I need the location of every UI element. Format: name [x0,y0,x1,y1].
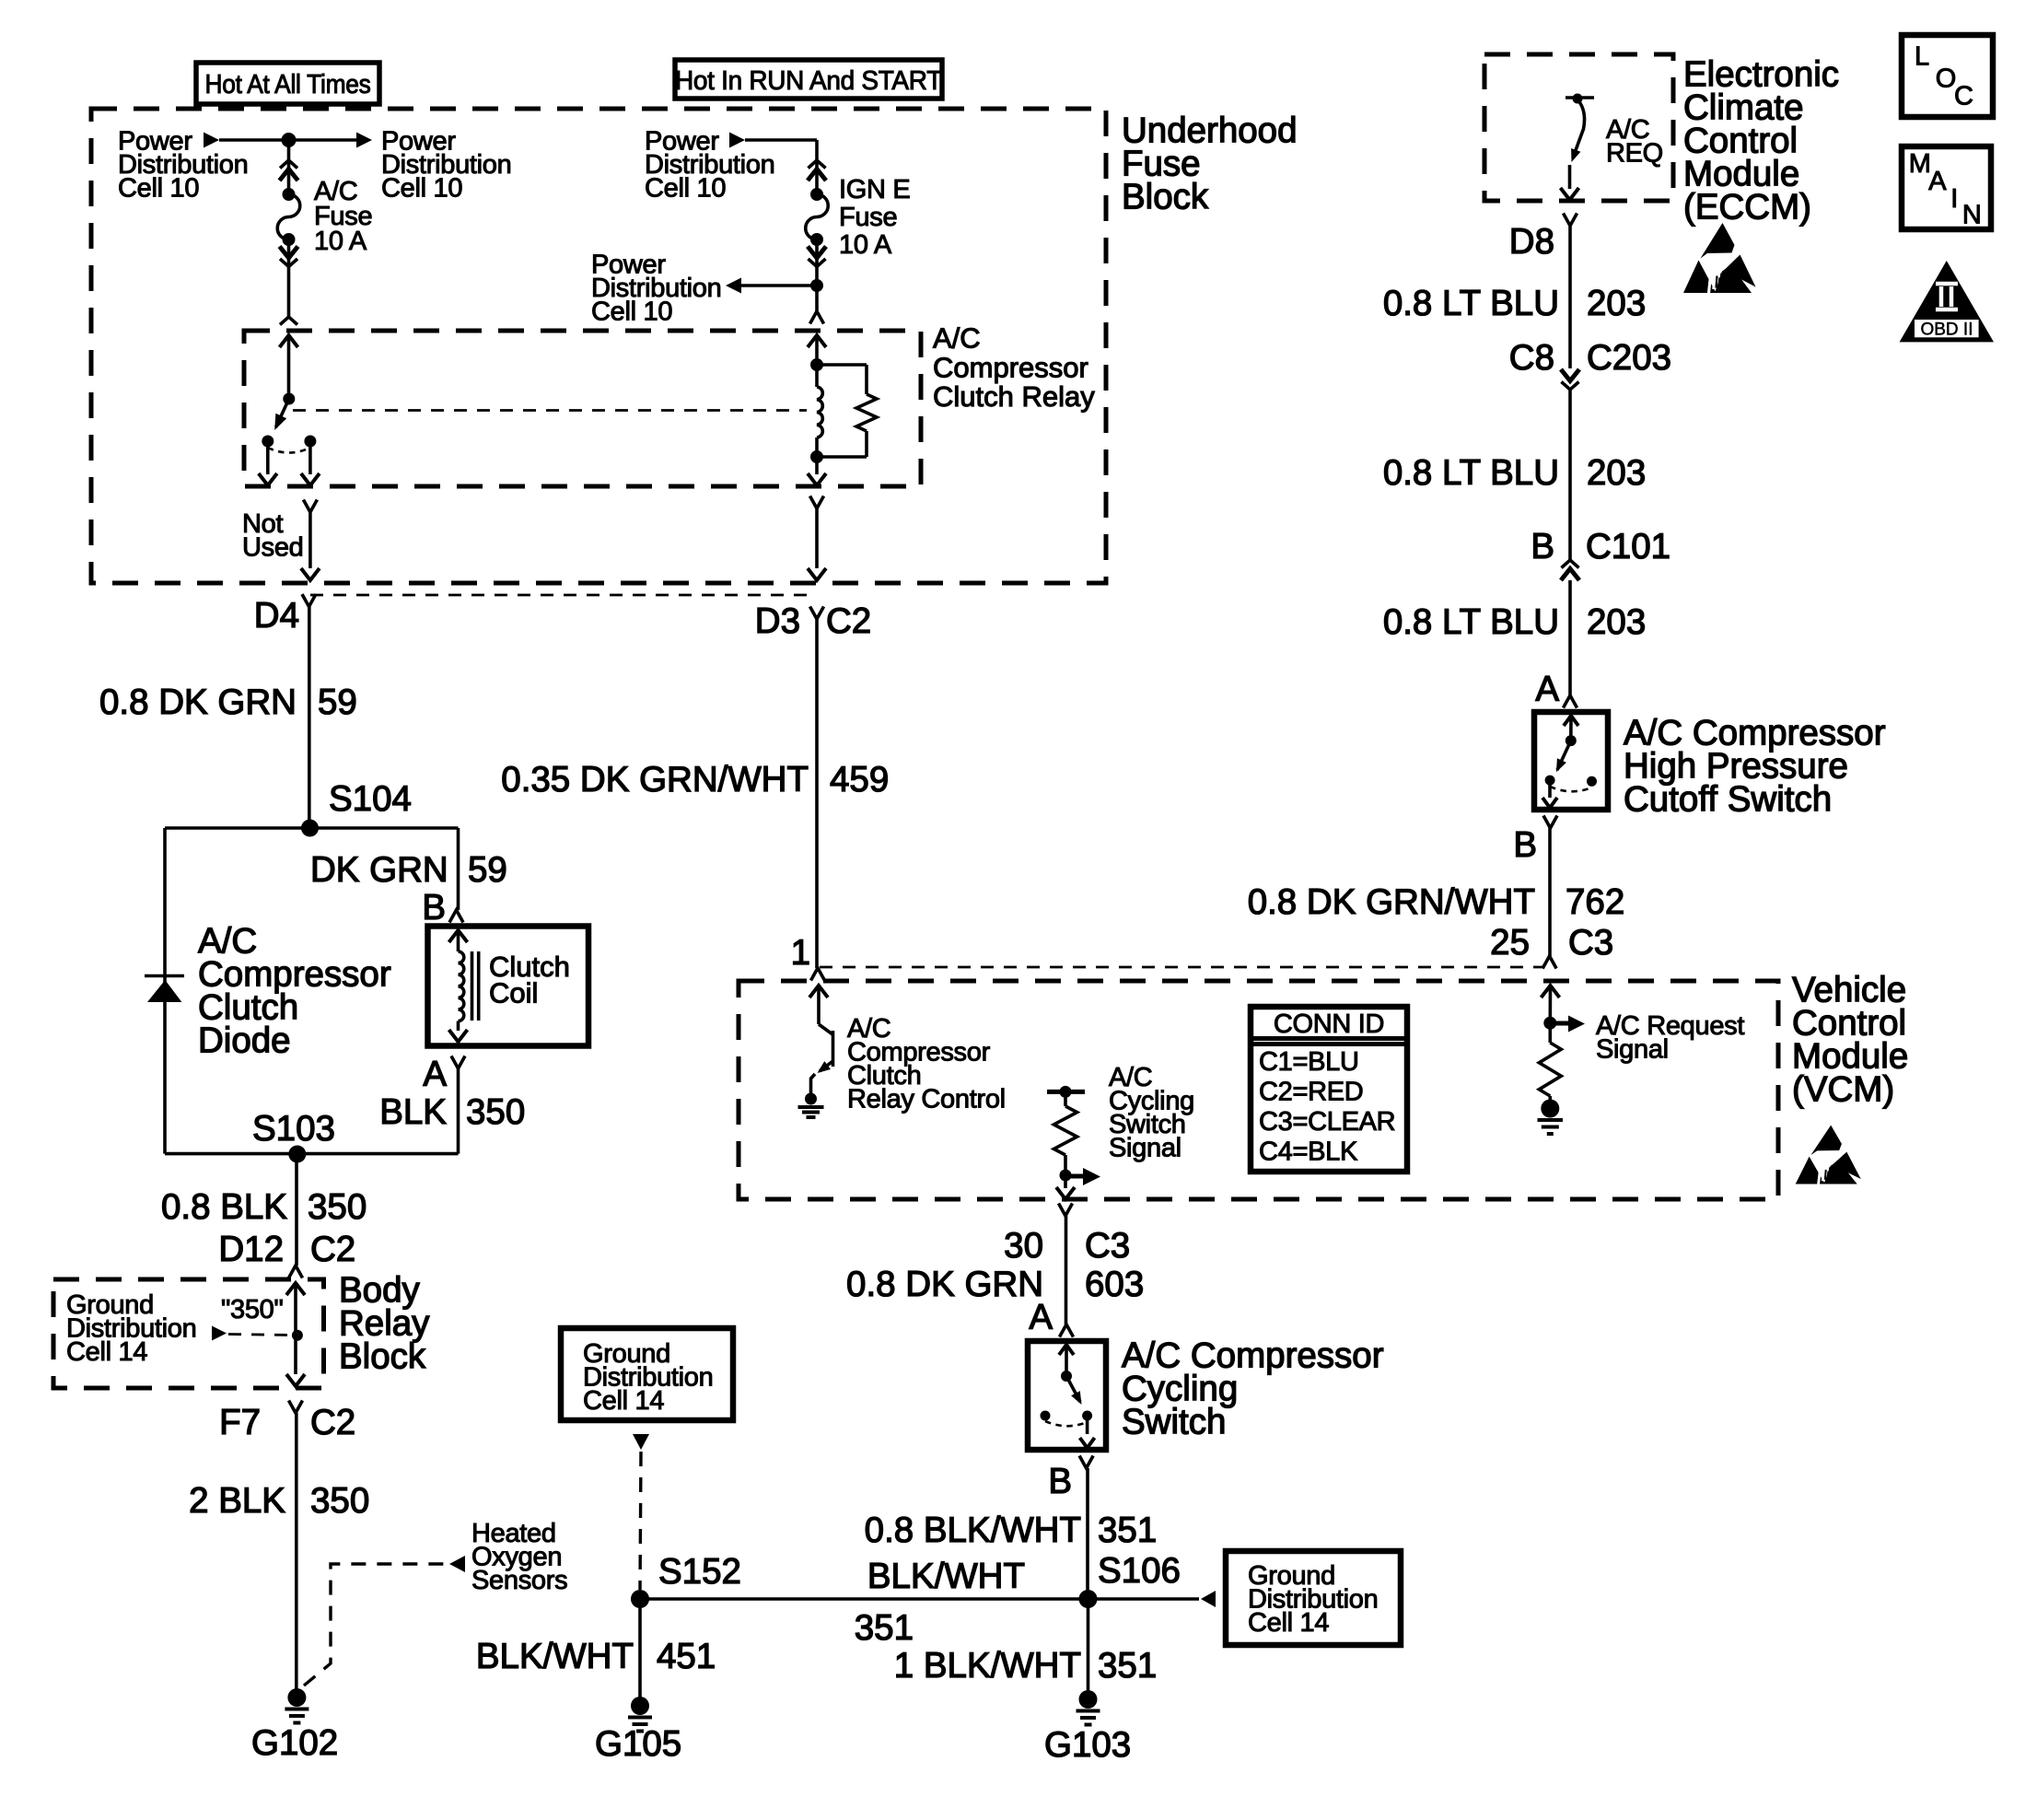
A/C REQ output wire [1561,165,1579,200]
label 0.8 DK GRN/WHT 762 [1248,882,1625,922]
svg-text:A: A [1029,1298,1053,1337]
wire F7 to G102 [295,1413,298,1697]
VCM cycling signal dot top [1060,1086,1072,1098]
label F7 C2 [219,1403,355,1442]
svg-text:Hot At All Times: Hot At All Times [205,70,371,99]
svg-text:D4: D4 [254,596,299,636]
label 0.8 DK GRN 59 [99,682,357,722]
node: power distribution reference left [118,127,248,204]
connector Y pin1 VCM [811,968,825,981]
svg-text:O: O [1936,64,1956,94]
svg-text:A: A [1928,167,1947,196]
svg-text:0.8 LT BLU: 0.8 LT BLU [1383,602,1559,642]
svg-text:30: 30 [1004,1226,1043,1266]
VCM request junction dot [1543,1017,1556,1030]
svg-text:Cell 14: Cell 14 [66,1337,147,1367]
label ref 350 [221,1295,283,1324]
wire relay to fuse block edge left [301,512,320,580]
svg-text:Cell 10: Cell 10 [118,174,199,204]
svg-text:F7: F7 [219,1403,261,1442]
label 0.8 BLK/WHT 351 [865,1511,1158,1550]
connector Y D12 [289,1266,303,1278]
relay resistor zigzag [856,394,877,431]
HP switch blade [1556,741,1571,772]
label 25 C3 [1490,923,1613,962]
clutch coil entry arrow [449,930,468,951]
connector Y clutch coil B [449,910,463,923]
underhood fuse block label [1122,111,1298,216]
label pin A clutch coil [423,1055,447,1094]
relay NO wire [301,441,320,485]
ESD symbol ECCM [1683,223,1756,293]
wire clutch coil to S103 [457,1068,460,1154]
svg-text:C2=RED: C2=RED [1259,1078,1363,1107]
wire power dist tap [740,284,817,287]
relay coil [817,365,822,457]
connector Y F7 [289,1401,303,1414]
label DK GRN 59 [310,850,507,890]
svg-text:C3: C3 [1568,923,1613,962]
arrow ground distribution left [212,1326,227,1341]
connector Y HP switch B [1543,816,1557,829]
connector Y 25 C3 [1542,956,1556,969]
ground distribution cell14 box right [1226,1551,1401,1645]
junction S104 [301,820,319,837]
svg-text:Clutch Relay: Clutch Relay [933,380,1095,413]
cycling switch contact dot left [1041,1411,1051,1421]
svg-text:G105: G105 [595,1724,681,1764]
CONN ID table box [1251,1007,1407,1172]
connector chevrons down C203 [1561,369,1579,390]
label A/C Compressor Cycling Switch [1122,1336,1384,1441]
svg-text:Block: Block [339,1336,426,1376]
arrow ground distribution right [1201,1591,1216,1607]
svg-text:S106: S106 [1098,1551,1181,1591]
label A/C Compressor Clutch Diode [198,921,391,1060]
svg-text:10 A: 10 A [839,230,892,260]
label 0.8 DK GRN 603 [846,1265,1144,1304]
svg-text:Signal: Signal [1596,1035,1669,1065]
svg-text:Used: Used [242,533,304,563]
arrow power distribution left [204,133,219,148]
svg-text:Sensors: Sensors [471,1566,567,1595]
svg-text:S104: S104 [329,779,412,819]
svg-text:59: 59 [468,850,507,890]
label D12 C2 [218,1230,355,1269]
label pin 1 [791,933,810,973]
wire 603 [1065,1216,1068,1324]
wire below IGN E fuse [815,239,819,311]
VCM cycling signal resistor [1053,1091,1077,1175]
dashed wire heated oxygen sensors [304,1564,448,1686]
dashed wire to S152 [640,1452,641,1590]
svg-text:C1=BLU: C1=BLU [1259,1047,1359,1077]
relay coil entry arrow [808,335,826,365]
connector chevrons up at A/C fuse [280,160,298,181]
label S103 [252,1109,335,1149]
wire S103 to D12 [295,1154,298,1266]
arrow ground distribution mid [633,1434,649,1450]
wire S103 horizontal [165,1152,459,1156]
label G102 [251,1723,338,1763]
label 0.8 BLK 350 [161,1187,367,1227]
wire cycling switch to S106 [1086,1468,1089,1599]
svg-text:1 BLK/WHT: 1 BLK/WHT [894,1646,1081,1686]
label G105 [595,1724,681,1764]
cycling switch pivot dot [1061,1371,1072,1382]
svg-text:Coil: Coil [489,977,538,1009]
svg-text:762: 762 [1566,882,1624,922]
OBD II triangle [1900,261,1994,342]
wire HP switch to VCM [1548,828,1552,956]
ground G102 [285,1688,308,1723]
wire S104 horizontal [165,826,459,830]
svg-text:B: B [1513,825,1537,865]
svg-text:0.8 BLK/WHT: 0.8 BLK/WHT [865,1511,1081,1550]
connector chevrons up at IGN E fuse [808,160,826,181]
label S104 [329,779,412,819]
svg-text:25: 25 [1490,923,1530,962]
junction S106 [1079,1590,1098,1608]
svg-text:N: N [1962,201,1982,230]
cycling switch contact dot right [1082,1411,1092,1421]
wire C101 to HP switch [1568,580,1572,695]
svg-text:351: 351 [1098,1511,1157,1550]
VCM request ground [1538,1100,1564,1135]
relay pivot dot [283,393,295,405]
svg-text:Block: Block [1122,177,1209,216]
label Ground Distribution Cell 14 left [66,1290,196,1367]
label A/C Cycling Switch Signal [1109,1063,1194,1163]
wire 59 to S104 [308,606,311,828]
ground G103 [1077,1690,1100,1725]
HP switch contact arc [1550,787,1591,791]
label D3 C2 [755,601,871,641]
svg-text:S103: S103 [252,1109,335,1149]
svg-text:C3=CLEAR: C3=CLEAR [1259,1107,1395,1137]
wire power feed horizontal [219,138,357,142]
label C8 C203 [1509,338,1671,378]
svg-text:0.8 BLK: 0.8 BLK [161,1187,287,1227]
relay switch arm entry arrow [280,335,298,399]
ESD symbol VCM [1796,1126,1861,1184]
svg-text:A: A [1535,670,1559,709]
wire S106 to ground dist [1088,1597,1200,1601]
connector chevron at relay box top left [280,317,297,325]
svg-text:D8: D8 [1509,222,1554,262]
diode D1 cathode bar [145,974,184,978]
svg-text:Cutoff Switch: Cutoff Switch [1624,779,1832,819]
body relay block box [53,1279,324,1388]
svg-text:C8: C8 [1509,338,1554,378]
svg-text:0.8 DK GRN: 0.8 DK GRN [99,682,297,722]
connector Y HP switch A [1564,695,1577,708]
LOC box [1902,35,1993,117]
HP switch pivot dot [1566,735,1577,746]
label S106 [1098,1551,1181,1591]
label 0.8 LT BLU 203 lower [1383,602,1646,642]
svg-text:C2: C2 [310,1403,355,1442]
relay contact dot NO [304,436,316,448]
svg-text:BLK: BLK [379,1092,447,1132]
HP switch contact dot left [1545,776,1555,786]
MAIN box [1902,146,1991,230]
svg-text:0.8 DK GRN/WHT: 0.8 DK GRN/WHT [1248,882,1535,922]
svg-text:I: I [1950,184,1958,214]
svg-text:BLK/WHT: BLK/WHT [867,1557,1025,1596]
label pin B clutch coil [422,888,446,927]
relay NC wire not used [259,441,277,485]
connector Y D8 [1564,214,1577,227]
svg-text:B: B [422,888,446,927]
connector Y cycling switch B [1079,1456,1093,1469]
svg-text:59: 59 [318,682,357,722]
svg-text:351: 351 [1098,1646,1157,1686]
label A/C Request Signal [1596,1011,1744,1065]
svg-text:Cell 10: Cell 10 [645,174,726,204]
svg-text:G103: G103 [1044,1725,1131,1765]
wire D8 to C203 [1568,226,1572,368]
A/C REQ switch bar [1566,96,1594,99]
cycling switch box [1028,1341,1106,1450]
svg-text:(VCM): (VCM) [1792,1069,1894,1109]
ground distribution cell14 box mid [561,1328,733,1420]
svg-text:203: 203 [1587,453,1646,493]
svg-text:CONN ID: CONN ID [1274,1009,1384,1039]
svg-text:Compressor: Compressor [933,351,1088,383]
svg-text:D12: D12 [218,1230,284,1269]
label G103 [1044,1725,1131,1765]
label 351 under link [855,1608,914,1648]
svg-text:Cell 10: Cell 10 [381,174,462,204]
connector chevrons up C101 [1561,560,1579,580]
label D8 [1509,222,1554,262]
VCM request resistor [1539,1023,1561,1100]
wire S152 to G105 [638,1599,642,1706]
wire 459 to VCM [815,619,819,968]
svg-text:451: 451 [657,1637,716,1676]
svg-text:C2: C2 [310,1230,355,1269]
node: power distribution reference right [381,127,511,204]
label C1=BLU [1259,1047,1359,1077]
fuse F1 A/C Fuse 10A [277,188,300,246]
label 30 C3 [1004,1226,1130,1266]
label S152 [658,1552,741,1592]
svg-text:C203: C203 [1587,338,1671,378]
clutch coil box [428,927,589,1046]
label A/C Compressor Clutch Relay [933,322,1095,414]
label 0.8 LT BLU 203 upper [1383,284,1646,323]
node: power distribution reference tap [591,251,721,327]
label A/C Fuse 10 A [314,177,372,256]
svg-text:IGN E: IGN E [839,175,910,204]
label 0.8 LT BLU 203 middle [1383,453,1646,493]
junction dot A/C fuse top [282,133,297,147]
svg-text:0.8 DK GRN: 0.8 DK GRN [846,1265,1043,1304]
VCM cycling signal exit [1056,1175,1075,1199]
VCM relay control ground [798,1093,824,1118]
cycling switch blade [1066,1376,1082,1405]
junction dot 350 splice [292,1330,303,1341]
junction S103 [288,1146,306,1163]
svg-text:B: B [1531,527,1554,566]
label 2 BLK 350 [189,1481,369,1521]
wire A/C fuse drop [287,140,291,194]
wire below A/C fuse [287,239,291,316]
svg-text:Diode: Diode [198,1021,291,1060]
label D4 [254,596,299,636]
svg-text:203: 203 [1587,602,1646,642]
svg-text:B: B [1048,1462,1072,1501]
label Vehicle Control Module VCM [1792,970,1908,1109]
label pin A cycling switch [1029,1298,1053,1337]
VCM box [739,981,1778,1199]
label B C101 [1531,527,1670,566]
label BLK/WHT mid [867,1557,1025,1596]
connector C2 line at D4-D3 [310,594,817,597]
svg-text:L: L [1915,42,1929,72]
label pin B cycling switch [1048,1462,1072,1501]
svg-text:Fuse: Fuse [839,203,897,232]
VCM cycling signal dot bottom [1060,1170,1072,1182]
label Heated Oxygen Sensors [471,1519,567,1595]
svg-text:0.35 DK GRN/WHT: 0.35 DK GRN/WHT [501,760,809,799]
wire S106 to G103 [1087,1599,1090,1699]
svg-text:10 A: 10 A [314,227,367,256]
svg-text:A/C: A/C [933,322,981,355]
label box Hot In RUN And START [675,60,943,99]
A/C REQ pivot dot [1573,94,1583,104]
wire diode branch down [163,828,167,1154]
svg-text:Cell 14: Cell 14 [1248,1608,1329,1638]
body relay block exit arrow [286,1374,305,1386]
label A/C Compressor Clutch Relay Control [847,1014,1006,1114]
wire relay to fuse block edge right [808,508,826,580]
label Not Used [242,509,304,563]
diode D1 triangle [147,980,181,1002]
svg-text:Signal: Signal [1109,1134,1181,1163]
relay coil bottom dot [810,450,823,463]
connector Y below relay right [810,496,824,509]
svg-text:351: 351 [855,1608,914,1648]
VCM cycling signal bar [1047,1090,1085,1094]
relay actuator dashed link [293,409,807,412]
svg-text:C: C [1954,82,1973,111]
label Body Relay Block [339,1270,430,1376]
connector Y D3 [810,607,824,620]
relay blade [274,399,289,430]
arrow power distribution mid [729,133,745,148]
label 0.35 DK GRN/WHT 459 [501,760,889,799]
VCM cycling signal arrow [1065,1168,1100,1185]
HP switch output wire [1542,780,1557,808]
svg-text:S152: S152 [658,1552,741,1592]
ground G105 [628,1697,652,1732]
VCM relay control entry arrow [809,986,828,1024]
HP cutoff switch box [1534,712,1608,810]
relay parallel resistor [817,365,867,457]
svg-text:G102: G102 [251,1723,338,1763]
wire IGN E feed [745,140,817,194]
arrow heated oxygen sensors [449,1556,465,1572]
label Electronic Climate Control Module ECCM [1683,54,1839,227]
label pin A HP switch [1535,670,1559,709]
svg-text:C2: C2 [826,601,871,641]
label C2=RED [1259,1078,1363,1107]
svg-text:350: 350 [310,1481,369,1521]
svg-text:0.8 LT BLU: 0.8 LT BLU [1383,284,1559,323]
connector Y into relay box right [810,311,824,324]
svg-text:D3: D3 [755,601,800,641]
svg-text:350: 350 [466,1092,525,1132]
label A/C REQ [1606,115,1663,169]
HP switch entry arrow [1564,716,1578,741]
svg-text:M: M [1909,149,1931,179]
body relay block entry arrow [286,1283,305,1374]
connector Y D4 [302,594,316,607]
fuse F2 IGN E Fuse 10A [806,188,829,246]
relay contact dot NC [262,436,274,448]
svg-text:603: 603 [1085,1265,1144,1304]
svg-text:BLK/WHT: BLK/WHT [476,1637,634,1676]
clutch coil exit arrow [449,1021,468,1042]
VCM request entry arrow [1542,986,1560,1023]
junction dot power dist tap [810,279,823,292]
junction S152 [631,1590,649,1608]
HP switch contact dot right [1587,776,1597,787]
connector C3 line at pin25 [820,966,1542,969]
svg-text:0.8 LT BLU: 0.8 LT BLU [1383,453,1559,493]
svg-text:Cell 10: Cell 10 [591,297,672,327]
label C4=BLK [1259,1137,1358,1167]
label C3=CLEAR [1259,1107,1395,1137]
cycling switch entry arrow [1059,1345,1074,1376]
VCM request arrow [1550,1016,1585,1032]
label box Hot At All Times [196,63,379,104]
node: power distribution reference mid [645,127,774,204]
relay K1 box [244,331,921,486]
connector Y below relay left [303,500,317,513]
svg-text:2 BLK: 2 BLK [189,1481,285,1521]
wire S152 S106 link [640,1597,1088,1601]
svg-text:459: 459 [830,760,889,799]
wire coil branch down [457,828,460,910]
svg-text:"350": "350" [221,1295,283,1324]
clutch coil core bars [472,951,479,1021]
label CONN ID [1274,1009,1384,1039]
connector Y clutch coil A [451,1056,465,1069]
svg-text:C101: C101 [1586,527,1670,566]
svg-text:OBD II: OBD II [1920,321,1973,340]
svg-text:C4=BLK: C4=BLK [1259,1137,1358,1167]
ECCM box [1484,54,1673,201]
label BLK 350 [379,1092,525,1132]
cycling switch contact arc [1045,1421,1088,1426]
dashed ref wire 350 [228,1335,291,1336]
svg-text:Relay Control: Relay Control [847,1085,1006,1114]
arrow power distribution right [356,133,372,148]
arrow power distribution tap [726,278,741,294]
label Clutch Coil [489,951,570,1009]
label A/C Compressor High Pressure Cutoff Switch [1624,713,1886,819]
relay coil top dot [810,358,823,371]
svg-text:C3: C3 [1085,1226,1130,1266]
svg-text:Hot In RUN And START: Hot In RUN And START [675,66,943,96]
A/C REQ blade [1571,99,1584,162]
svg-text:1: 1 [791,933,810,973]
label 1 BLK/WHT 351 [894,1646,1157,1686]
svg-text:REQ: REQ [1606,139,1663,169]
